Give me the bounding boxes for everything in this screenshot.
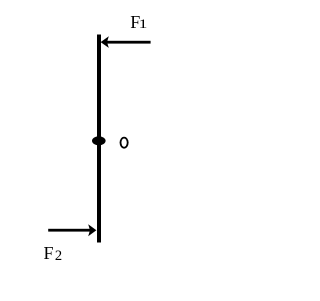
force arrow F1 head [101,36,109,48]
force arrow F1 shaft [104,41,151,44]
force arrow F2 shaft [48,229,93,232]
pivot point O (dot on rod) [92,136,106,145]
label F2 [44,243,63,264]
label F1 [130,12,147,32]
rod (vertical bar) [97,35,101,243]
force arrow F2 head [88,224,96,236]
label O [120,137,129,149]
svg-text:2: 2 [55,248,62,264]
svg-text:1: 1 [139,17,148,32]
svg-text:F: F [44,243,54,263]
